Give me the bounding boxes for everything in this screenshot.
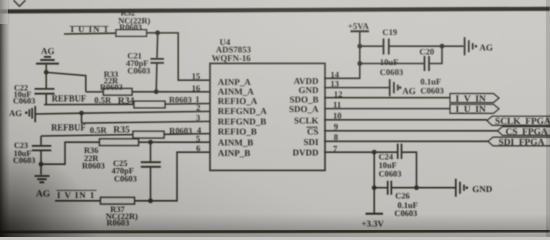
wire +3.3V column bbox=[373, 152, 375, 213]
node pin2/AG column bbox=[79, 111, 84, 116]
wire R36 left lead bbox=[41, 142, 101, 164]
pin names left bbox=[218, 77, 267, 158]
node C24 branch bbox=[414, 185, 419, 190]
wire pin7 DVDD bbox=[324, 151, 397, 153]
ground AG top-right bbox=[465, 37, 493, 55]
resistor R35 bbox=[133, 131, 164, 138]
resistor R32 bbox=[116, 30, 147, 37]
wire pin12 SDO_B bbox=[324, 97, 450, 99]
ground AG top-left bbox=[36, 46, 59, 72]
label R32 bbox=[118, 9, 150, 32]
resistor R36 bbox=[100, 139, 139, 146]
net label I V IN 1 overline bbox=[57, 189, 97, 191]
wire C23 bottom bbox=[40, 150, 42, 164]
port CS_FPGA bbox=[498, 127, 550, 138]
label C19 bbox=[380, 27, 403, 77]
wire C24 right bbox=[402, 152, 417, 188]
wire R33 leads bbox=[86, 91, 210, 93]
wire pin3 REFGND_B bbox=[81, 113, 83, 123]
node C23/R36/ground bbox=[39, 162, 44, 167]
wire pin14 AVDD bbox=[324, 31, 360, 78]
label R33 bbox=[100, 70, 123, 92]
wire C21 top bbox=[156, 33, 159, 58]
ground AG mid-right bbox=[390, 79, 416, 96]
wire C23 top bbox=[40, 136, 42, 145]
wire C26 left lead bbox=[374, 187, 387, 189]
CS overbar bbox=[307, 126, 318, 128]
node DVDD bbox=[372, 150, 377, 155]
node C25/IVIN bbox=[148, 198, 153, 203]
wire rail1 bbox=[360, 45, 464, 47]
net label I U IN 1 bbox=[71, 24, 110, 34]
ground GND bottom-right bbox=[456, 179, 493, 197]
label C24 bbox=[379, 153, 402, 179]
wire C25 bottom bbox=[150, 167, 152, 201]
label C25 bbox=[112, 159, 137, 184]
label C21 bbox=[126, 52, 150, 76]
wire pin11 SDO_A bbox=[324, 108, 450, 110]
off-sheet diamond flag bbox=[14, 0, 26, 6]
label R36 bbox=[82, 146, 105, 170]
node junction R32-C21 bbox=[155, 30, 160, 35]
power +5VA bbox=[348, 21, 370, 31]
wire REFBUF to R34 bbox=[44, 104, 210, 105]
port I_U_IN bbox=[450, 104, 499, 115]
wire pin8 SDI bbox=[324, 140, 488, 142]
wire C25 top bbox=[150, 142, 152, 161]
capacitor C25 bbox=[141, 162, 161, 167]
wire I_U_IN net bbox=[64, 33, 210, 80]
net label REFBUF 2 bbox=[51, 122, 192, 135]
wire rail2 bbox=[360, 46, 442, 63]
wire pin2 REFGND_A bbox=[36, 111, 210, 114]
port SDI_FPGA bbox=[488, 137, 550, 148]
node C26 tap bbox=[372, 185, 377, 190]
capacitor C20 bbox=[425, 56, 430, 71]
sheet border line bbox=[0, 9, 550, 12]
port I_V_IN bbox=[450, 94, 499, 105]
wire C22 bottom bbox=[45, 94, 47, 105]
label C22 bbox=[13, 83, 35, 105]
wire C21 bottom bbox=[155, 63, 158, 92]
wire pin3 REFGND_B horizontal bbox=[82, 121, 211, 123]
wire AG to R33 column bbox=[46, 72, 86, 92]
ground AG bottom-left bbox=[35, 164, 51, 199]
port SCLK_FPGA bbox=[487, 116, 550, 127]
ground AG left (pin2) bbox=[9, 106, 35, 122]
label C26 bbox=[394, 192, 417, 219]
node rail1-rail2 bridge bbox=[440, 44, 445, 49]
label R37 bbox=[106, 205, 138, 227]
capacitor C21 bbox=[150, 59, 164, 63]
label C23 bbox=[13, 141, 35, 165]
node C25 top bbox=[148, 140, 153, 145]
pin numbers right bbox=[330, 70, 342, 154]
capacitor C22 bbox=[35, 89, 55, 94]
resistor R34 bbox=[134, 101, 165, 108]
net label I U IN 1 overline bbox=[70, 25, 109, 27]
wire pin10 SCLK bbox=[324, 119, 487, 121]
label U4 bbox=[212, 37, 252, 63]
pin numbers left bbox=[192, 71, 202, 153]
wire pin13 GND to AG bbox=[324, 87, 389, 89]
wire I_V_IN net bbox=[55, 152, 210, 201]
node rail1 bbox=[357, 44, 362, 49]
capacitor C19 bbox=[384, 39, 389, 55]
resistor R37 bbox=[101, 197, 135, 204]
wire pin9 CS bbox=[324, 130, 498, 132]
capacitor C26 bbox=[388, 181, 392, 195]
label C20 bbox=[419, 47, 443, 96]
node rail2 bbox=[357, 61, 362, 66]
capacitor C24 bbox=[398, 144, 402, 159]
IC U4 ADS7853 body bbox=[210, 63, 325, 170]
wire C22 top bbox=[45, 72, 47, 88]
resistor R33 bbox=[103, 89, 132, 96]
node AG top-left bbox=[44, 70, 49, 75]
capacitor C23 bbox=[32, 146, 52, 151]
net label I V IN 1 bbox=[57, 190, 95, 200]
pin names right bbox=[289, 76, 319, 157]
wire REFBUF2 to R35 bbox=[41, 134, 210, 136]
wire C26 right to GND bbox=[391, 187, 455, 189]
power +3.3V bbox=[362, 214, 385, 229]
net label REFBUF bbox=[52, 94, 192, 107]
wire pin5 AINM_B bbox=[138, 141, 210, 143]
